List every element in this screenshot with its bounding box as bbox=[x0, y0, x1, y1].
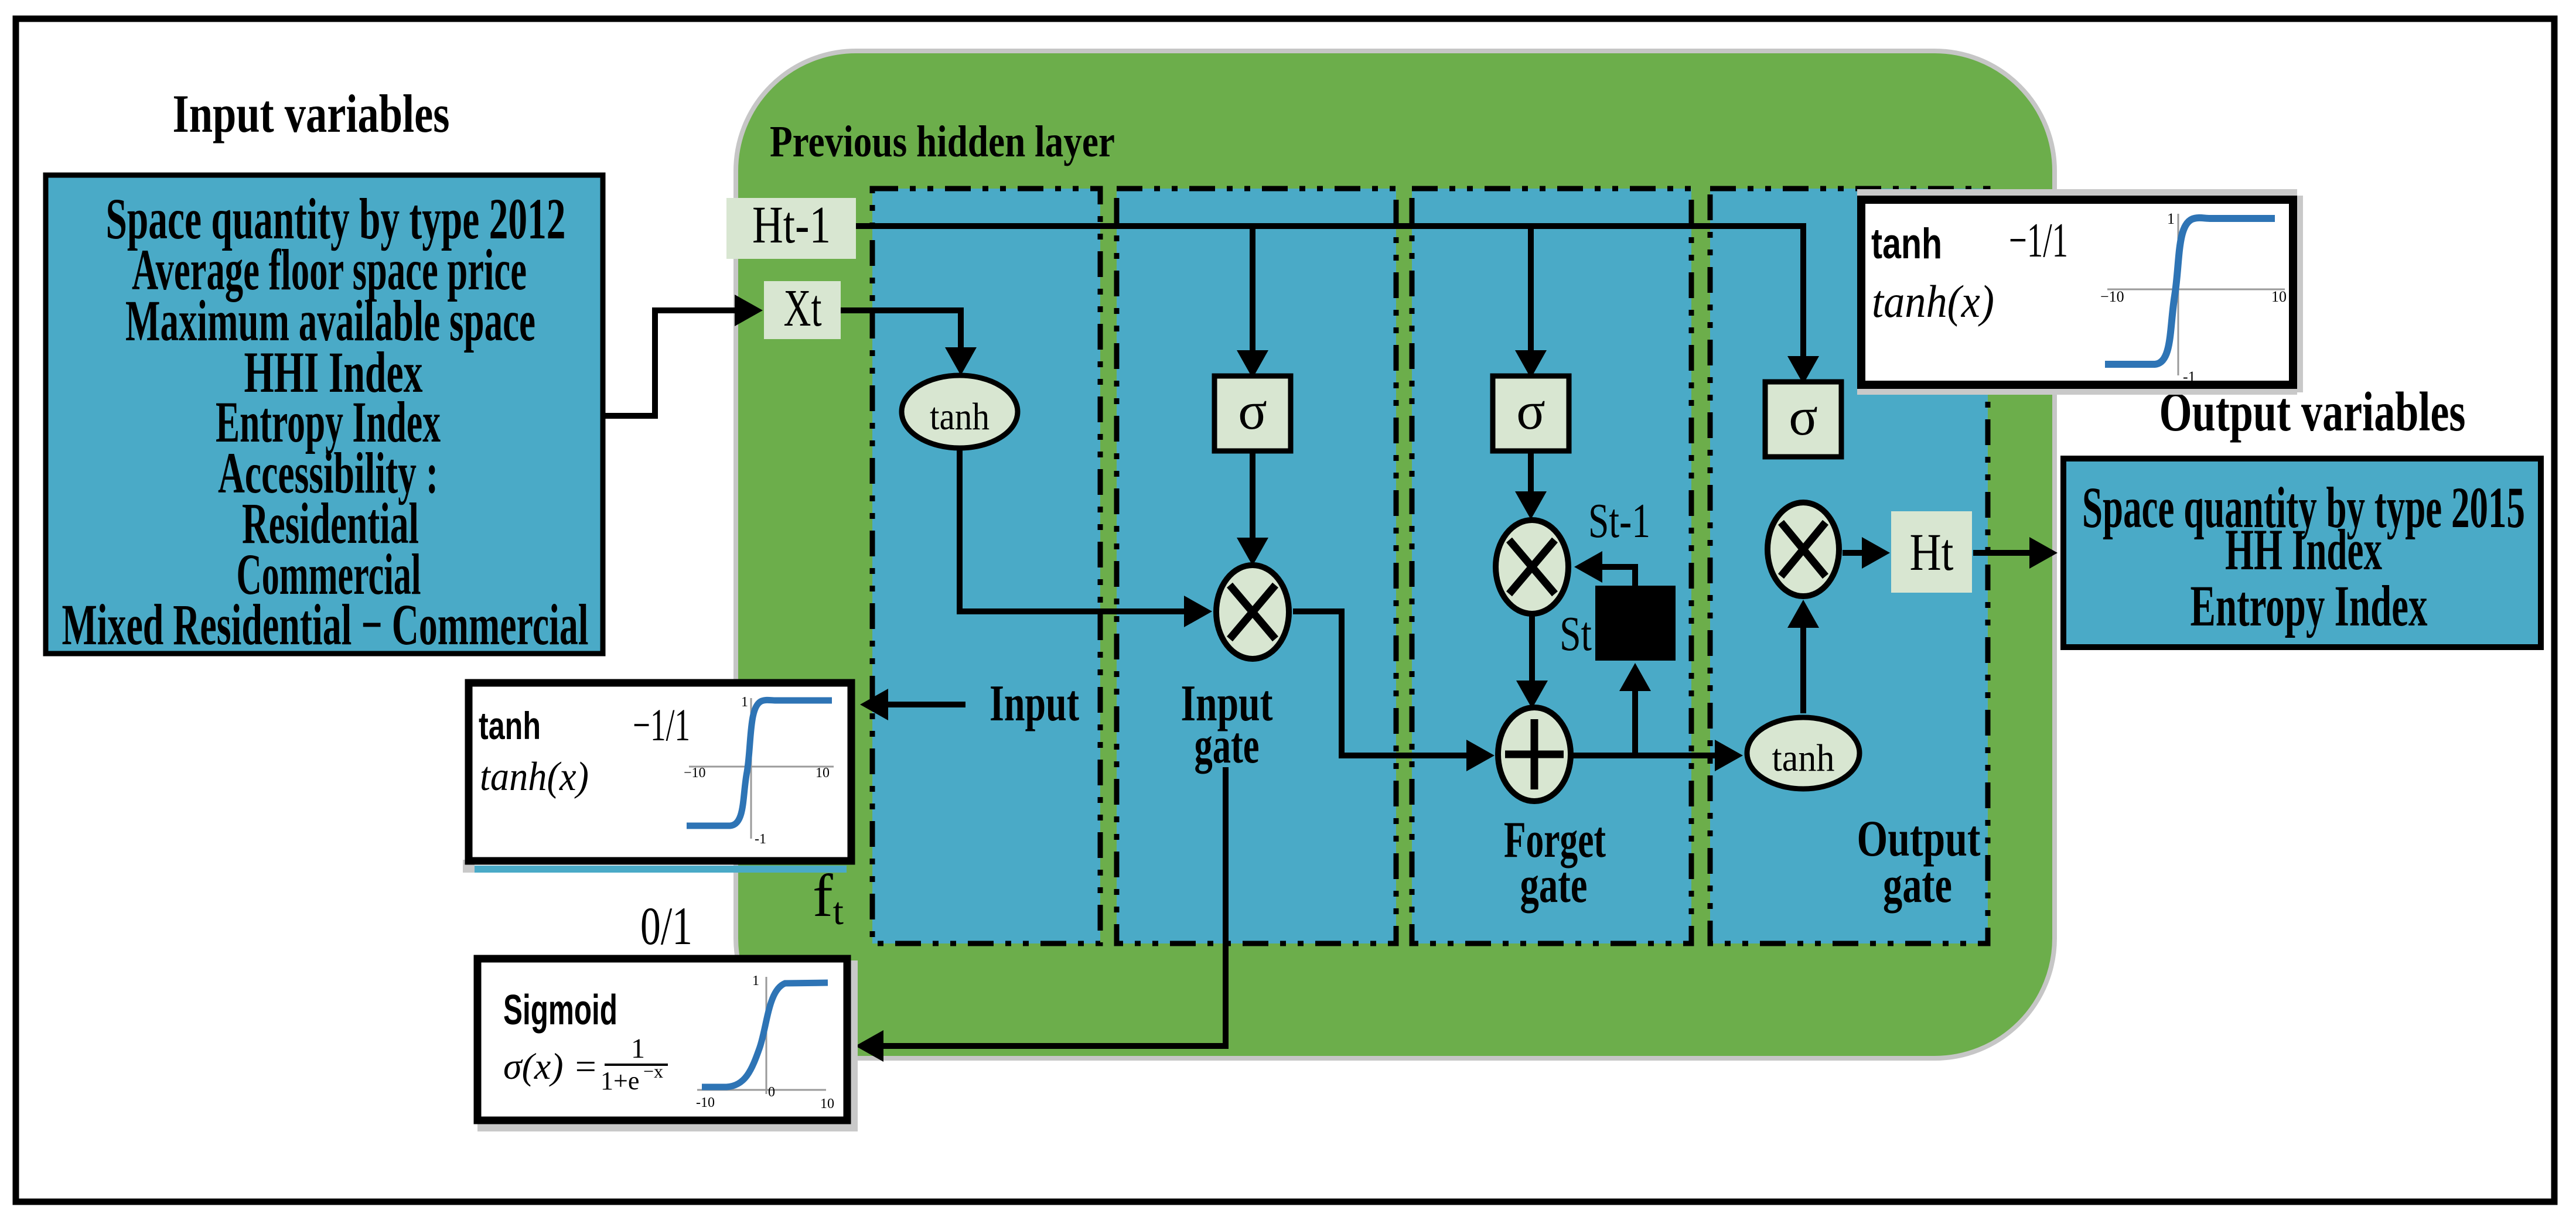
wire: Ht-1 branch to sigma 3 bbox=[1528, 226, 1534, 350]
svg-text:tanh: tanh bbox=[1772, 737, 1835, 779]
arrowhead into sigma 4 bbox=[1787, 356, 1819, 384]
arrowhead at tanh inset bbox=[860, 689, 888, 720]
svg-text:-1: -1 bbox=[2183, 368, 2196, 385]
tanh graph A axes bbox=[2107, 214, 2285, 375]
sigma box 3 bbox=[1493, 376, 1569, 451]
svg-text:σ(x) =: σ(x) = bbox=[503, 1045, 598, 1087]
svg-text:Xt: Xt bbox=[784, 279, 822, 337]
svg-text:1: 1 bbox=[752, 973, 759, 989]
svg-text:Entropy Index: Entropy Index bbox=[2191, 573, 2428, 638]
tanh inset A (top right) bbox=[1857, 189, 2303, 395]
arrowhead into multiply 2 left bbox=[1184, 596, 1212, 627]
svg-text:HH Index: HH Index bbox=[2225, 517, 2382, 582]
svg-text:tanh: tanh bbox=[479, 704, 541, 747]
Ht-1 label box bbox=[726, 198, 856, 259]
Xt label box bbox=[764, 281, 841, 339]
wire: input gate down to sigmoid inset bbox=[883, 767, 1226, 1046]
tanh curve B bbox=[687, 700, 832, 826]
svg-text:Previous hidden layer: Previous hidden layer bbox=[770, 117, 1115, 166]
arrowhead into sigma 2 bbox=[1237, 350, 1268, 378]
svg-text:σ: σ bbox=[1516, 381, 1545, 440]
arrowhead into multiply 4 bottom bbox=[1787, 600, 1819, 628]
cell panel 2 (input gate) bbox=[1117, 189, 1396, 943]
arrowhead into multiply 2 top bbox=[1237, 538, 1268, 566]
svg-text:gate: gate bbox=[1520, 857, 1588, 914]
svg-text:-10: -10 bbox=[696, 1095, 715, 1110]
svg-text:Input: Input bbox=[990, 675, 1079, 732]
svg-text:St-1: St-1 bbox=[1588, 494, 1650, 548]
wire: branch up into state square bbox=[1632, 691, 1638, 755]
Ht label box bbox=[1891, 511, 1972, 593]
input variables box text bbox=[62, 186, 589, 657]
svg-text:1: 1 bbox=[2167, 210, 2175, 227]
wire: tanh 2 up to multiply 4 bbox=[1800, 628, 1806, 713]
svg-text:σ: σ bbox=[1789, 387, 1818, 446]
svg-text:10: 10 bbox=[816, 765, 830, 781]
svg-text:1: 1 bbox=[631, 1033, 645, 1064]
cell panel 3 (forget gate) bbox=[1412, 189, 1691, 943]
tanh curve A bbox=[2105, 218, 2275, 364]
arrowhead into square bottom bbox=[1619, 663, 1651, 691]
svg-text:0: 0 bbox=[768, 1085, 775, 1100]
svg-text:Mixed Residential − Commercial: Mixed Residential − Commercial bbox=[62, 592, 589, 657]
svg-text:gate: gate bbox=[1195, 717, 1260, 774]
wire: multiply 3 to plus top bbox=[1529, 616, 1535, 681]
tanh graph B axes bbox=[689, 698, 834, 839]
arrowhead into Xt bbox=[735, 295, 763, 326]
svg-text:Ht-1: Ht-1 bbox=[752, 196, 831, 254]
output variables box bbox=[2063, 459, 2541, 647]
multiply node 2 (input gate) bbox=[1216, 565, 1289, 659]
state square (black) bbox=[1595, 586, 1676, 661]
wire: Input label arrow to tanh inset bbox=[888, 702, 965, 707]
arrowhead into multiply 3 top bbox=[1515, 491, 1547, 519]
multiply node 4 (output gate) bbox=[1768, 502, 1839, 596]
svg-text:Sigmoid: Sigmoid bbox=[503, 987, 617, 1034]
input variables box bbox=[46, 175, 603, 654]
tanh inset B (middle left) bbox=[463, 683, 851, 873]
arrowhead into Ht left bbox=[1862, 537, 1890, 569]
wire: state square to multiply 3 bbox=[1602, 567, 1635, 588]
arrowhead into tanh 2 left bbox=[1715, 740, 1743, 771]
svg-text:-1: -1 bbox=[755, 832, 766, 847]
svg-text:−1/1: −1/1 bbox=[2009, 213, 2068, 268]
arrowhead into multiply 3 right bbox=[1574, 551, 1602, 583]
svg-text:Ht: Ht bbox=[1910, 524, 1954, 582]
cell panel 1 bbox=[872, 189, 1100, 943]
tanh node (panel 1) bbox=[902, 375, 1018, 448]
svg-text:tanh: tanh bbox=[1871, 220, 1942, 268]
sigmoid inset C bbox=[477, 959, 858, 1131]
svg-text:1+e: 1+e bbox=[601, 1066, 639, 1095]
wire: Ht-1 branch to sigma 2 bbox=[1250, 226, 1255, 350]
svg-text:St: St bbox=[1560, 607, 1592, 661]
sigmoid curve bbox=[702, 983, 828, 1087]
svg-text:tanh(x): tanh(x) bbox=[480, 754, 589, 799]
svg-text:−10: −10 bbox=[2100, 288, 2124, 305]
svg-text:tanh(x): tanh(x) bbox=[1872, 276, 1994, 327]
svg-text:gate: gate bbox=[1883, 857, 1952, 914]
svg-text:10: 10 bbox=[820, 1096, 834, 1112]
wire: Ht to output box bbox=[1973, 550, 2029, 556]
svg-text:1: 1 bbox=[741, 695, 748, 710]
wire: sigma 3 to multiply 3 bbox=[1528, 451, 1534, 491]
green container (previous hidden layer) bbox=[736, 51, 2055, 1058]
wire: sigma 2 to multiply 2 bbox=[1250, 451, 1255, 538]
multiply node 3 (forget gate) bbox=[1496, 520, 1568, 614]
arrowhead into plus left bbox=[1466, 740, 1495, 771]
wire: Ht-1 main line bbox=[854, 226, 1803, 356]
svg-text:−1/1: −1/1 bbox=[633, 699, 690, 750]
plus node bbox=[1498, 707, 1571, 801]
sigmoid graph axes bbox=[697, 977, 826, 1094]
wire: multiply 4 to Ht bbox=[1843, 550, 1862, 556]
svg-text:0/1: 0/1 bbox=[640, 896, 692, 956]
arrowhead into plus top bbox=[1516, 681, 1548, 709]
svg-text:σ: σ bbox=[1238, 381, 1267, 440]
wire: tanh node to input-gate multiply bbox=[960, 450, 1184, 611]
svg-text:Input variables: Input variables bbox=[173, 84, 450, 143]
wire: input box to Xt bbox=[603, 310, 735, 416]
arrowhead into tanh node bbox=[945, 347, 977, 375]
wire: multiply 2 to plus node bbox=[1293, 611, 1466, 755]
arrowhead at sigmoid inset bbox=[855, 1030, 883, 1062]
cell panel 4 (output gate) bbox=[1710, 189, 1988, 943]
svg-text:10: 10 bbox=[2271, 288, 2287, 305]
arrowhead into sigma 3 bbox=[1515, 350, 1547, 378]
arrowhead at output bbox=[2029, 537, 2058, 569]
svg-text:−x: −x bbox=[643, 1061, 663, 1082]
wire: Xt to tanh node bbox=[841, 310, 961, 347]
svg-text:tanh: tanh bbox=[930, 395, 990, 438]
sigma box 4 bbox=[1765, 382, 1841, 457]
tanh node 2 bbox=[1747, 717, 1860, 789]
wire: plus node to tanh 2 bbox=[1573, 753, 1715, 758]
sigma box 2 bbox=[1214, 376, 1291, 451]
svg-text:−10: −10 bbox=[684, 765, 706, 781]
